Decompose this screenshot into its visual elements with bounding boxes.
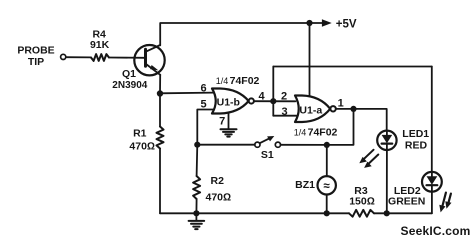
wire U1-a pin 3: [273, 115, 296, 117]
svg-text:2N3904: 2N3904: [112, 80, 147, 91]
label 1/4 74F02 (U1-a): [294, 127, 338, 139]
wire node A to U1-b pin 6: [160, 92, 214, 95]
ground (below R2): [189, 221, 205, 229]
value 2N3904: [112, 80, 147, 91]
power +5V arrow: [310, 19, 332, 26]
resistor R1: [157, 127, 164, 149]
value 470 ohm: [206, 191, 232, 203]
pin 3 label: [281, 106, 287, 118]
wire BZ1 top lead: [326, 145, 328, 176]
wire pin 1 node down to S1 row: [327, 109, 354, 145]
svg-text:LED1: LED1: [402, 128, 429, 140]
junction dot +5V rail: [306, 20, 312, 26]
label 1/4 74F02 (U1-b): [216, 75, 260, 87]
svg-text:1/4: 1/4: [216, 76, 229, 86]
label LED1: [402, 128, 429, 140]
pin 5 label: [200, 98, 206, 110]
wire U1-b pin 7 to ground: [228, 113, 230, 129]
label LED2: [394, 185, 421, 197]
pin 7 label: [219, 116, 225, 128]
wire feedback top: [273, 66, 432, 68]
node PROBE TIP label: [17, 45, 54, 69]
svg-text:Q1: Q1: [122, 68, 136, 80]
wire pin 1 node to LED1 anode: [354, 109, 387, 131]
wire node A to R1: [159, 94, 161, 127]
svg-text:470Ω: 470Ω: [206, 191, 232, 203]
label BZ1: [295, 179, 315, 191]
wire R4 to Q1 base: [109, 57, 144, 59]
label R3: [354, 185, 368, 197]
ground (U1-b pin 7): [221, 129, 237, 136]
resistor R3: [349, 210, 374, 217]
wire S1 to BZ1 node: [281, 144, 327, 146]
svg-text:1: 1: [338, 98, 344, 110]
label R1: [133, 127, 147, 139]
label R2: [211, 175, 225, 187]
LED LED2: [422, 172, 442, 192]
wire U1-b pin 4 to U1-a pin 2: [254, 100, 296, 102]
svg-text:7: 7: [219, 116, 225, 128]
gate U1-a (NOR): [295, 96, 336, 123]
svg-text:PROBE: PROBE: [17, 45, 54, 57]
wire Q1 collector to +5V rail: [160, 23, 309, 45]
wire LED2 cathode to rail: [431, 192, 433, 214]
wire R2 to ground rail: [195, 199, 197, 213]
svg-text:74F02: 74F02: [308, 127, 338, 139]
pin 2 label: [281, 90, 287, 102]
svg-text:SeekIC.com: SeekIC.com: [401, 224, 471, 238]
junction dot BZ1 top: [324, 142, 330, 148]
wire R1 to ground rail: [159, 149, 161, 214]
svg-text:6: 6: [200, 82, 206, 94]
resistor R4: [91, 54, 109, 61]
label U1-b: [217, 97, 240, 109]
svg-text:RED: RED: [405, 139, 428, 151]
junction node B: [194, 142, 200, 148]
label U1-a: [299, 104, 322, 116]
junction dot BZ1 rail: [324, 210, 330, 216]
svg-text:5: 5: [200, 98, 206, 110]
svg-text:74F02: 74F02: [230, 75, 260, 87]
LED LED1: [377, 131, 396, 150]
watermark SeekIC.com: [401, 224, 471, 238]
pin 1 label: [338, 98, 344, 110]
wire LED1 cathode to rail: [386, 150, 388, 214]
label S1: [261, 149, 274, 161]
wire bottom rail right segment: [374, 212, 432, 214]
svg-text:R1: R1: [133, 127, 147, 139]
wire probe tip to R4: [66, 56, 91, 58]
label +5V: [336, 19, 357, 31]
wire U1-a pin 1 output: [336, 108, 354, 110]
junction dot pin 1 node: [350, 106, 356, 112]
value 150 ohm: [349, 196, 375, 208]
svg-text:U1-a: U1-a: [299, 104, 322, 116]
junction dot pin4 node: [270, 98, 276, 104]
wire bottom rail left segment: [160, 212, 349, 214]
wire feedback column: [272, 67, 274, 116]
junction node A: [157, 90, 163, 96]
svg-text:≈: ≈: [324, 181, 331, 193]
LED2 emission arrows: [439, 193, 451, 213]
wire U1-b pin 5: [197, 110, 214, 145]
value 91K: [90, 39, 110, 51]
svg-text:S1: S1: [261, 149, 274, 161]
svg-text:GREEN: GREEN: [388, 196, 425, 208]
LED1 emission arrows: [359, 150, 378, 168]
probe tip terminal: [61, 54, 66, 59]
wire Q1 emitter to node A: [159, 75, 161, 94]
value 470 ohm: [129, 141, 155, 153]
buzzer BZ1: [318, 176, 336, 194]
wire S1 to node B: [197, 144, 255, 146]
label Q1: [122, 68, 136, 80]
wire node B to R2: [196, 145, 199, 176]
svg-text:1/4: 1/4: [294, 128, 307, 138]
pin 6 label: [200, 82, 206, 94]
label RED: [405, 139, 428, 151]
svg-text:+5V: +5V: [336, 19, 357, 31]
svg-text:470Ω: 470Ω: [129, 141, 155, 153]
svg-text:150Ω: 150Ω: [349, 196, 375, 208]
wire BZ1 to rail: [326, 195, 328, 214]
svg-text:3: 3: [281, 106, 287, 118]
switch S1: [255, 136, 281, 147]
svg-text:TIP: TIP: [28, 56, 44, 68]
label GREEN: [388, 196, 425, 208]
junction dot R2 rail: [193, 210, 199, 216]
svg-text:R2: R2: [211, 175, 225, 187]
svg-text:BZ1: BZ1: [295, 179, 315, 191]
gate U1-b (NOR): [212, 89, 254, 114]
svg-text:91K: 91K: [90, 39, 110, 51]
resistor R2: [193, 176, 200, 199]
label R4: [92, 28, 106, 40]
transistor Q1: [134, 45, 164, 75]
wire stub to ground symbol: [195, 213, 197, 220]
svg-text:2: 2: [281, 90, 287, 102]
junction dot LED1 rail: [384, 210, 390, 216]
wire +5V rail to U1-a power pin: [309, 23, 311, 96]
pin 4 label: [258, 91, 265, 103]
wire feedback to LED2 anode: [431, 67, 433, 172]
svg-text:U1-b: U1-b: [217, 97, 240, 109]
